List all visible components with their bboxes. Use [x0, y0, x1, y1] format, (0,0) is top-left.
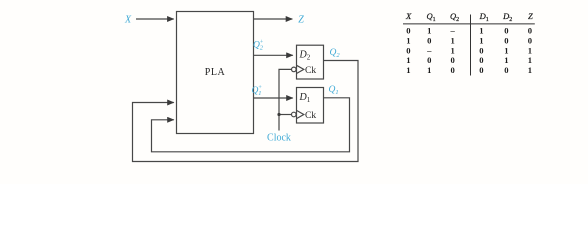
svg-text:1: 1	[528, 45, 532, 55]
svg-text:0: 0	[451, 65, 455, 75]
svg-text:1: 1	[479, 35, 483, 45]
svg-text:0: 0	[479, 45, 483, 55]
svg-text:1: 1	[451, 35, 455, 45]
svg-text:0: 0	[427, 35, 431, 45]
wire Z output	[254, 18, 293, 20]
wire clock to Ck of U1	[279, 114, 292, 116]
clock bubble U2	[292, 67, 297, 72]
svg-text:Q2: Q2	[450, 11, 459, 23]
svg-text:1: 1	[406, 35, 410, 45]
svg-text:0: 0	[504, 25, 508, 35]
svg-text:D1: D1	[479, 11, 489, 23]
flip-flop U2 box	[297, 45, 324, 79]
svg-text:0: 0	[406, 45, 410, 55]
flip-flop U1 box	[297, 88, 324, 124]
svg-text:0: 0	[528, 35, 532, 45]
truth table data	[406, 25, 532, 75]
svg-text:Q1: Q1	[329, 85, 339, 96]
clock edge triangle U2	[297, 65, 304, 73]
truth table divider	[470, 15, 472, 76]
clock bubble U1	[292, 112, 297, 117]
wire Q'1 PLA to D1	[254, 97, 293, 99]
svg-text:0: 0	[528, 25, 532, 35]
svg-text:Clock: Clock	[267, 133, 291, 144]
wire Q2 feedback loop	[133, 61, 359, 162]
svg-text:Z: Z	[298, 15, 304, 26]
truth table header	[405, 11, 533, 23]
svg-text:1: 1	[479, 25, 483, 35]
wire Q1 feedback loop	[152, 98, 350, 152]
svg-text:0: 0	[479, 55, 483, 65]
svg-text:1: 1	[406, 55, 410, 65]
truth table header rule	[403, 23, 535, 25]
svg-text:PLA: PLA	[205, 67, 226, 78]
svg-text:Q+2: Q+2	[253, 40, 264, 52]
svg-text:Ck: Ck	[305, 111, 316, 121]
svg-text:Z: Z	[528, 11, 533, 21]
wire clock vertical	[279, 69, 292, 130]
svg-text:0: 0	[406, 25, 410, 35]
svg-text:Ck: Ck	[305, 66, 316, 76]
wire Q'2 PLA to D2	[254, 54, 293, 56]
svg-text:D2: D2	[502, 11, 512, 23]
svg-text:1: 1	[528, 65, 532, 75]
junction clock node	[277, 113, 280, 116]
wire X input	[136, 18, 174, 20]
svg-text:Q2: Q2	[330, 48, 341, 59]
clock edge triangle U1	[297, 110, 304, 118]
svg-text:1: 1	[504, 55, 508, 65]
svg-text:D1: D1	[299, 92, 311, 104]
svg-text:Q1: Q1	[427, 11, 436, 23]
svg-text:D2: D2	[299, 50, 311, 62]
svg-text:1: 1	[528, 55, 532, 65]
svg-text:X: X	[405, 11, 412, 21]
svg-text:–: –	[426, 45, 432, 55]
svg-text:0: 0	[504, 35, 508, 45]
svg-text:1: 1	[406, 65, 410, 75]
svg-text:0: 0	[427, 55, 431, 65]
svg-text:1: 1	[504, 45, 508, 55]
svg-text:–: –	[450, 25, 456, 35]
svg-text:1: 1	[451, 45, 455, 55]
svg-text:X: X	[124, 14, 132, 25]
PLA block	[177, 12, 254, 134]
svg-text:1: 1	[427, 65, 431, 75]
svg-text:0: 0	[479, 65, 483, 75]
svg-text:Q+1: Q+1	[252, 85, 263, 97]
svg-text:0: 0	[504, 65, 508, 75]
svg-text:0: 0	[451, 55, 455, 65]
svg-text:1: 1	[427, 25, 431, 35]
